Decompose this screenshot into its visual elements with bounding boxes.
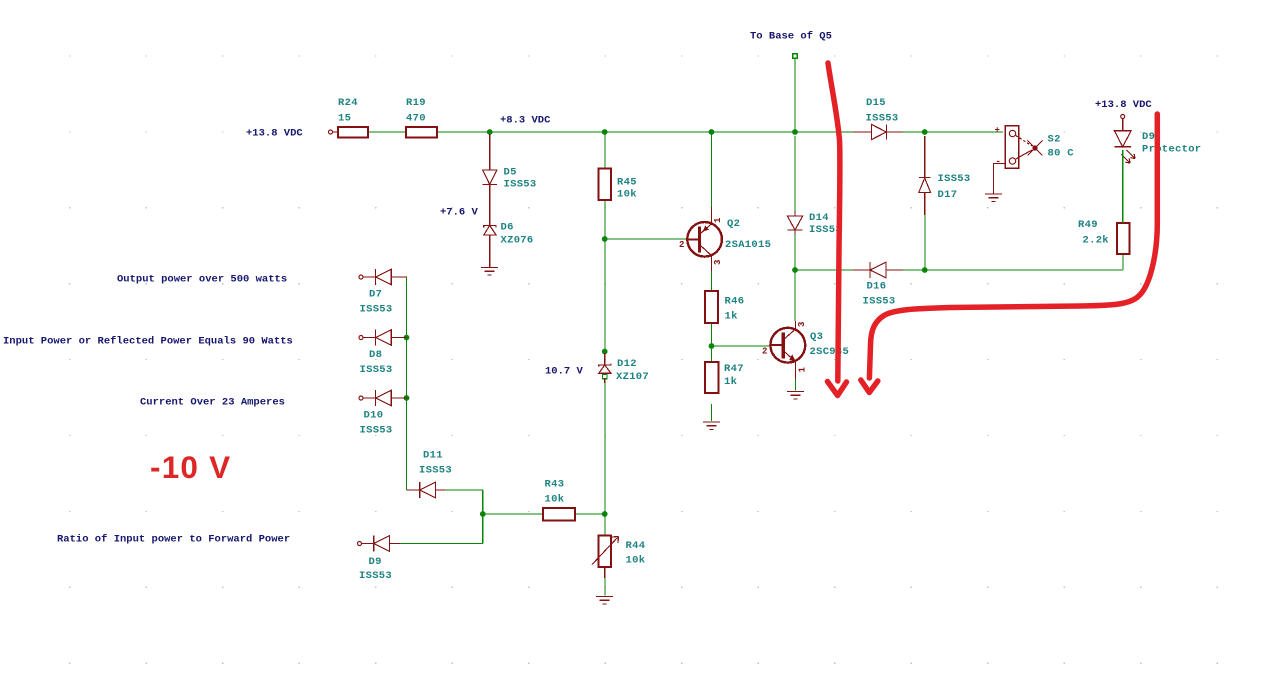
svg-text:10k: 10k: [626, 555, 646, 567]
ground (below S2): [985, 194, 1002, 201]
svg-text:D6: D6: [501, 222, 514, 234]
svg-text:ISS53: ISS53: [359, 570, 392, 582]
node C (junction): [709, 129, 715, 135]
svg-text:+13.8 VDC: +13.8 VDC: [246, 128, 303, 140]
diode D8 ISS53: [359, 330, 407, 346]
svg-text:+8.3 VDC: +8.3 VDC: [500, 115, 551, 127]
diode D7 ISS53: [359, 269, 407, 285]
svg-text:+13.8 VDC: +13.8 VDC: [1095, 99, 1152, 111]
wire node to Q3 collector: [794, 270, 796, 321]
svg-text:R47: R47: [724, 363, 744, 375]
svg-text:2: 2: [762, 347, 767, 357]
svg-text:15: 15: [338, 113, 351, 125]
diode D14 ISS53: [787, 211, 802, 234]
svg-text:XZ107: XZ107: [616, 371, 649, 383]
wire node to R47: [711, 346, 713, 362]
node B (junction): [602, 129, 608, 135]
svg-text:-10 V: -10 V: [150, 449, 231, 485]
resistor R24 body: [338, 127, 368, 138]
resistor R24 pin: [333, 131, 339, 133]
transistor Q3 2SC945 (NPN): [770, 321, 805, 379]
annotation red stroke 1 arrowhead: [828, 382, 847, 396]
svg-text:Output power over 500 watts: Output power over 500 watts: [117, 274, 287, 286]
wire Q3 collector row to D16: [795, 269, 853, 271]
svg-text:1: 1: [713, 217, 723, 223]
svg-text:D12: D12: [617, 358, 637, 370]
node E (junction): [922, 129, 928, 135]
wire bus to R45: [604, 132, 606, 168]
svg-text:2.2k: 2.2k: [1083, 235, 1109, 247]
wire node to D9 row: [482, 514, 484, 544]
svg-text:1: 1: [798, 367, 808, 373]
svg-text:2SA1015: 2SA1015: [725, 239, 771, 251]
ground (below R44): [596, 597, 613, 604]
svg-text:R19: R19: [406, 97, 426, 109]
svg-text:ISS53: ISS53: [419, 465, 452, 477]
resistor R44 wiper arrow: [592, 537, 619, 565]
svg-text:D9: D9: [1142, 131, 1155, 143]
svg-text:Q3: Q3: [810, 331, 823, 343]
zener diode D6 XZ076: [484, 225, 496, 267]
wire main bus R19 to D15: [437, 131, 853, 133]
svg-text:XZ076: XZ076: [501, 235, 534, 247]
svg-text:Input Power or Reflected Power: Input Power or Reflected Power Equals 90…: [3, 336, 293, 348]
wire D17 lower: [924, 215, 926, 270]
ground (below D6): [481, 268, 498, 275]
svg-text:1k: 1k: [724, 376, 737, 388]
wire Q2 base: [605, 238, 688, 240]
wire Q2 collector to R46: [711, 271, 713, 291]
wire node to R43: [483, 513, 543, 515]
transistor Q2 2SA1015 (PNP): [687, 207, 722, 271]
node R43-R44 (junction): [602, 511, 608, 517]
wire stub into D11: [407, 489, 420, 491]
svg-text:D14: D14: [809, 212, 829, 224]
svg-text:ISS53: ISS53: [360, 304, 393, 316]
svg-text:R44: R44: [626, 540, 646, 552]
wire node to R44: [604, 514, 606, 536]
diode D15 ISS53: [853, 124, 903, 139]
svg-text:D17: D17: [938, 189, 958, 201]
wire to base of Q5 vertical: [794, 58, 796, 132]
resistor R45 body: [599, 169, 612, 201]
svg-text:+: +: [995, 126, 1000, 136]
node R46-R47 (junction): [709, 343, 715, 349]
svg-text:2: 2: [679, 240, 684, 250]
wire R43 to node: [575, 513, 605, 515]
svg-text:D7: D7: [369, 289, 382, 301]
node D12 top (junction): [602, 349, 608, 355]
svg-text:470: 470: [406, 113, 426, 125]
LED D9 Protector: [1114, 119, 1135, 164]
svg-text:+7.6 V: +7.6 V: [440, 207, 479, 219]
wire D11 to node: [482, 490, 484, 514]
svg-text:R49: R49: [1078, 219, 1098, 231]
wire D14 to node: [794, 234, 796, 270]
diode D9 ISS53: [358, 536, 401, 552]
svg-text:R43: R43: [545, 479, 565, 491]
node: open wire end below D12: [603, 374, 607, 378]
node diode OR (junction): [480, 511, 486, 517]
svg-text:ISS53: ISS53: [863, 296, 896, 308]
resistor R44 bottom pin: [604, 567, 606, 578]
wire Q3 base: [712, 345, 771, 347]
resistor R19 body: [406, 127, 437, 138]
diode D10 ISS53: [359, 390, 407, 406]
resistor R46 body: [705, 291, 718, 323]
wire R47 to ground: [711, 404, 713, 421]
resistor R44 (variable) body: [599, 536, 612, 568]
annotation red stroke 2 (right arrow, long curve): [869, 114, 1157, 378]
svg-text:ISS53: ISS53: [360, 425, 393, 437]
diode D11 ISS53: [420, 482, 446, 498]
svg-text:Current Over 23 Amperes: Current Over 23 Amperes: [140, 397, 285, 409]
node Q3 collector (junction): [792, 267, 798, 273]
svg-text:D10: D10: [364, 410, 384, 422]
resistor R43 body: [543, 508, 575, 521]
wire R24-R19: [368, 131, 406, 133]
diode D17 ISS53: [919, 136, 931, 215]
ground (Q3 emitter): [787, 392, 804, 399]
switch S2 contact dot: [1032, 145, 1037, 150]
svg-text:10k: 10k: [617, 189, 637, 201]
wire bus to D14: [794, 136, 796, 211]
node D16-D17 (junction): [922, 267, 928, 273]
svg-text:D15: D15: [866, 97, 886, 109]
wire D9 row: [400, 543, 483, 545]
svg-text:D16: D16: [867, 281, 887, 293]
wire R44 to ground: [604, 578, 606, 596]
wire R49 leg: [1122, 254, 1124, 270]
wire Q2 base node to D12 node: [604, 239, 606, 351]
svg-text:2SC945: 2SC945: [810, 346, 850, 358]
svg-text:Protector: Protector: [1142, 144, 1201, 156]
svg-text:D8: D8: [369, 349, 382, 361]
switch S2 80C body: [1005, 126, 1042, 169]
wire main bus D15 to S2: [903, 131, 1003, 133]
wire D12 to R43 node: [604, 383, 606, 514]
svg-text:10.7 V: 10.7 V: [545, 366, 584, 378]
wire Q3 emitter to ground: [795, 379, 797, 391]
svg-text:R24: R24: [338, 97, 358, 109]
switch S2 ground connection: [994, 164, 1006, 195]
svg-text:D5: D5: [504, 167, 517, 179]
svg-text:To Base of Q5: To Base of Q5: [750, 31, 832, 43]
resistor R47 body: [705, 362, 719, 393]
svg-text:ISS53: ISS53: [360, 364, 393, 376]
node Q2 base (junction): [602, 236, 608, 242]
svg-text:1k: 1k: [725, 311, 738, 323]
svg-text:3: 3: [797, 322, 807, 327]
svg-text:D11: D11: [423, 450, 443, 462]
svg-text:10k: 10k: [545, 494, 565, 506]
zener diode D12 XZ107: [599, 353, 611, 383]
diode D16 ISS53: [853, 262, 903, 278]
resistor R49 body: [1117, 223, 1129, 254]
wire R46 to node: [711, 323, 713, 346]
node A +8.3VDC (junction): [487, 129, 493, 135]
wire D11 row: [446, 489, 483, 491]
svg-text:Ratio of Input power to Forwar: Ratio of Input power to Forward Power: [57, 534, 290, 546]
resistor R24 pin circle (open end): [329, 130, 333, 134]
wire bus to Q2 emitter: [711, 132, 713, 207]
node D10 (junction): [404, 395, 410, 401]
ground (below R47): [703, 422, 720, 429]
svg-text:Q2: Q2: [727, 218, 740, 230]
svg-text:80 C: 80 C: [1048, 148, 1075, 160]
annotation red stroke 1 (left arrow): [828, 63, 840, 381]
svg-text:S2: S2: [1048, 134, 1061, 146]
annotation red stroke 2 arrowhead: [861, 380, 878, 393]
node D (junction): [792, 129, 798, 135]
node D8 (junction): [404, 335, 410, 341]
svg-text:ISS53: ISS53: [504, 179, 537, 191]
power flag circle +13.8 VDC (right): [1121, 115, 1125, 119]
svg-text:3: 3: [713, 260, 723, 265]
svg-text:R45: R45: [617, 177, 637, 189]
wire R45 to Q2 base node: [604, 200, 606, 239]
svg-text:D9: D9: [369, 556, 382, 568]
svg-text:R46: R46: [725, 296, 745, 308]
wire D16 to R49 row: [903, 269, 1123, 271]
svg-text:ISS53: ISS53: [938, 173, 971, 185]
node: open wire end to base of Q5: [793, 54, 797, 58]
svg-text:-: -: [996, 157, 1001, 167]
diode D5 ISS53: [483, 134, 497, 225]
wire LED D9 to R49: [1122, 150, 1124, 223]
wire D7-D10 chain vertical: [406, 277, 408, 490]
svg-text:ISS53: ISS53: [866, 113, 899, 125]
